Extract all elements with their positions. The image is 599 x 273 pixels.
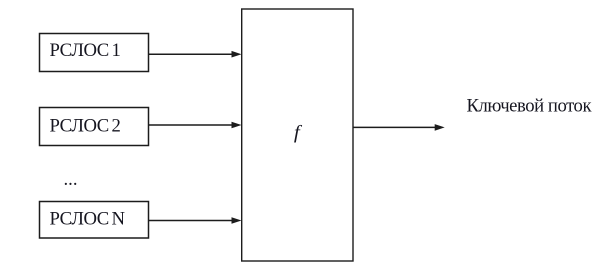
svg-text:Ключевой поток: Ключевой поток (467, 96, 593, 117)
svg-text:...: ... (64, 169, 78, 190)
svg-text:РСЛОС 1: РСЛОС 1 (50, 40, 121, 61)
svg-text:f: f (294, 122, 302, 143)
svg-text:РСЛОС 2: РСЛОС 2 (50, 116, 121, 137)
svg-text:РСЛОС N: РСЛОС N (50, 209, 126, 230)
